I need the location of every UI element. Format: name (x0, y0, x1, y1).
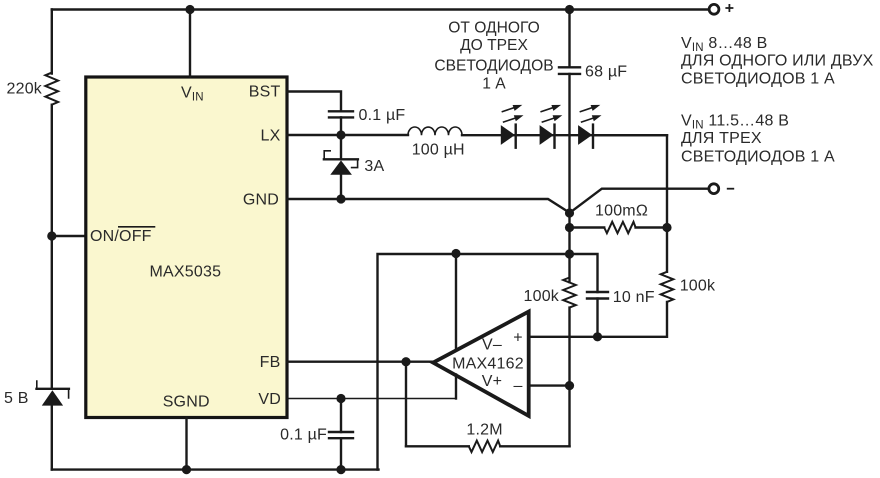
svg-text:5 В: 5 В (4, 390, 29, 407)
svg-text:ON/OFF: ON/OFF (90, 228, 152, 245)
resistor 1.2M (406, 421, 570, 452)
svg-text:ОТ ОДНОГО: ОТ ОДНОГО (448, 20, 539, 37)
node GND diode junction (336, 194, 345, 203)
svg-text:100k: 100k (524, 288, 560, 305)
svg-text:СВЕТОДИОДОВ 1 А: СВЕТОДИОДОВ 1 А (681, 71, 835, 88)
svg-text:68 µF: 68 µF (585, 64, 627, 81)
node 0.1uF bottom rail junction (336, 465, 345, 474)
node 10nF bottom junction (593, 332, 602, 341)
text LED count annotation (434, 20, 553, 93)
capacitor 0.1uF (VD) (280, 399, 353, 470)
svg-text:MAX4162: MAX4162 (452, 356, 524, 373)
node ON/OFF junction (47, 231, 56, 240)
wire ON/OFF pin (52, 235, 86, 237)
LED D3 (578, 105, 601, 148)
resistor 100k left (524, 278, 576, 308)
wire LED string (462, 134, 667, 136)
wire top supply rail (52, 8, 709, 10)
svg-text:ДЛЯ ОДНОГО ИЛИ ДВУХ: ДЛЯ ОДНОГО ИЛИ ДВУХ (681, 53, 874, 70)
terminal + output (709, 4, 733, 14)
wire GND pin (287, 199, 570, 213)
node 68uF top rail junction (565, 5, 574, 14)
resistor 100k right (661, 272, 716, 302)
svg-text:V–: V– (482, 337, 502, 354)
svg-text:VD: VD (258, 391, 281, 408)
wire cap to LX node (340, 117, 342, 135)
svg-text:MAX5035: MAX5035 (150, 263, 222, 280)
capacitor 68uF (559, 10, 627, 214)
wire op-amp V+ pin (455, 375, 457, 399)
resistor 220k (7, 73, 59, 105)
svg-text:100mΩ: 100mΩ (595, 203, 648, 220)
wire LX pin (287, 134, 408, 136)
svg-text:1.2M: 1.2M (466, 421, 502, 438)
wire VD pin to V+ (287, 398, 456, 400)
node VD cap junction (336, 394, 345, 403)
resistor 100mOhm (570, 203, 668, 234)
node minus input junction (565, 381, 574, 390)
IC U1 MAX5035 buck converter (86, 77, 287, 418)
wire VIN pin vertical (189, 10, 191, 78)
wire V- ground line (378, 254, 570, 470)
svg-text:LX: LX (261, 128, 281, 145)
svg-text:–: – (513, 378, 522, 395)
op-amp U2 MAX4162 (433, 312, 529, 416)
wire left 100k down to minus input and 1.2M (568, 308, 570, 447)
LED D1 (501, 105, 524, 148)
schottky diode 3A (324, 135, 385, 199)
node LX junction (336, 130, 345, 139)
svg-text:1 А: 1 А (482, 76, 506, 93)
node SGND rail junction (182, 465, 191, 474)
terminal - output (709, 184, 734, 194)
svg-text:10 nF: 10 nF (613, 289, 655, 306)
zener diode 5V (4, 381, 69, 407)
svg-text:SGND: SGND (163, 394, 210, 411)
svg-text:0.1 µF: 0.1 µF (359, 107, 406, 124)
node VIN top rail junction (185, 5, 194, 14)
wire BST pin to capacitor (287, 92, 341, 112)
svg-text:100 µH: 100 µH (412, 142, 465, 159)
wire ON/OFF node down to zener (51, 236, 53, 389)
svg-text:220k: 220k (7, 81, 43, 98)
svg-text:СВЕТОДИОДОВ: СВЕТОДИОДОВ (434, 57, 553, 74)
wire zener bottom to bottom rail (51, 406, 53, 470)
wire op-amp V- pin (455, 254, 457, 351)
inductor 100uH (408, 127, 465, 159)
wire LED cathode down to sense resistor (593, 135, 667, 272)
node FB feedback junction (401, 357, 410, 366)
LED D2 (540, 105, 563, 148)
svg-text:V+: V+ (482, 373, 502, 390)
svg-text:3A: 3A (364, 158, 384, 175)
svg-text:ДО ТРЕХ: ДО ТРЕХ (460, 37, 528, 54)
node sense ground junction (565, 208, 574, 217)
svg-text:0.1 µF: 0.1 µF (280, 426, 327, 443)
svg-text:+: + (513, 330, 523, 347)
wire bottom ground rail (52, 468, 379, 470)
wire 220k bottom to ON/OFF node (51, 105, 53, 236)
node 100mOhm right (662, 223, 671, 232)
capacitor 0.1uF (BST) (329, 107, 405, 124)
svg-text:100k: 100k (680, 278, 716, 295)
text VIN range annotation 2 (681, 113, 835, 166)
wire FB pin to op-amp output (287, 361, 433, 363)
svg-text:ДЛЯ ТРЕХ: ДЛЯ ТРЕХ (681, 130, 762, 147)
node sense to filter junction (565, 249, 574, 258)
node 100mOhm left (565, 223, 574, 232)
text VIN range annotation 1 (681, 35, 874, 88)
wire 100k right to plus input (529, 302, 667, 337)
capacitor 10nF (570, 254, 655, 337)
svg-text:СВЕТОДИОДОВ 1 А: СВЕТОДИОДОВ 1 А (681, 149, 835, 166)
wire SGND pin to rail (185, 418, 187, 470)
node V- supply junction (451, 249, 460, 258)
wire minus terminal (570, 189, 709, 213)
wire minus input (529, 384, 570, 386)
wire FB node down to 1.2M (405, 362, 407, 447)
wire sense node down chain (568, 213, 570, 282)
svg-text:FB: FB (260, 354, 281, 371)
svg-text:GND: GND (243, 192, 279, 209)
wire left vertical from top rail to 220k (51, 10, 53, 74)
svg-text:BST: BST (249, 84, 281, 101)
